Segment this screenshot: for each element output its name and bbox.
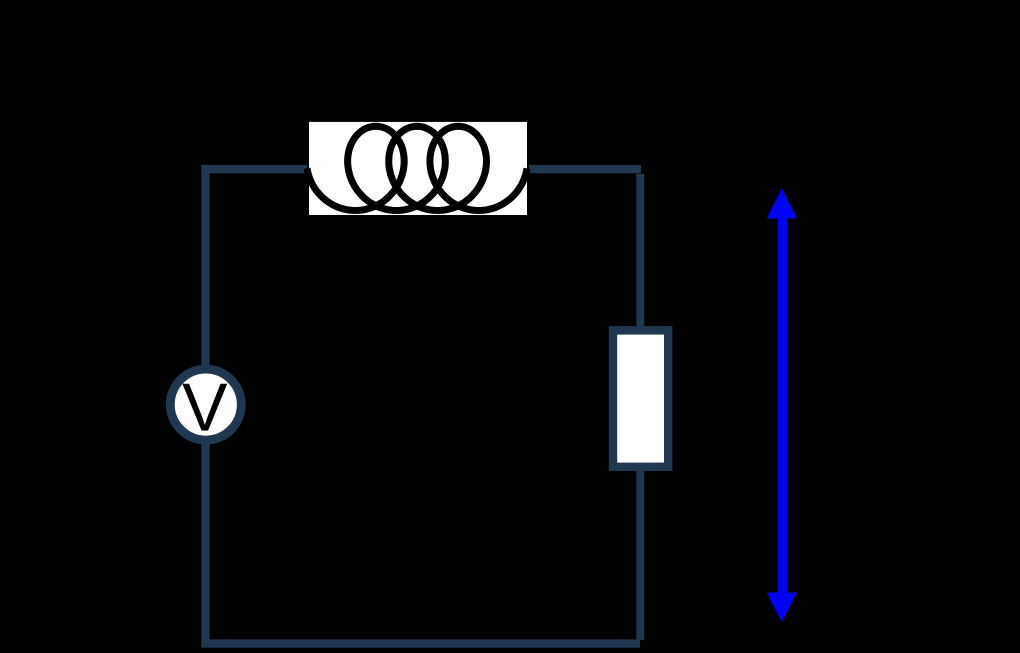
wire: left vertical segment [201, 165, 209, 648]
inductor L1 coil [307, 126, 527, 210]
wire: right vertical lower segment [636, 470, 644, 640]
svg-text:V: V [182, 370, 228, 446]
wire: right vertical upper segment [636, 174, 644, 327]
wire: bottom horizontal segment [201, 639, 640, 647]
wire: top-right horizontal segment [529, 165, 641, 173]
resistor R1 [613, 330, 668, 466]
arrow: blue double-headed motion indicator [767, 188, 797, 622]
inductor L1 body (white box) [309, 122, 527, 215]
voltmeter V1 circle [170, 369, 241, 440]
wire: top-left horizontal segment [201, 165, 307, 173]
